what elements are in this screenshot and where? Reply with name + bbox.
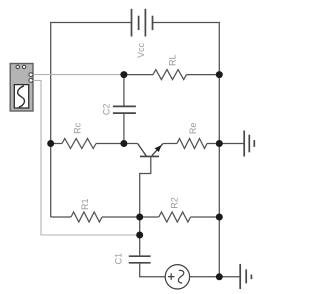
wire Rc to node [96,143,124,145]
node Re/ground [216,140,223,147]
capacitor C1 [129,256,151,263]
node RL/right bus [216,71,223,78]
wire top-left (battery to left bus) [51,22,132,24]
capacitor C2 [113,106,136,113]
node Rc/left bus [47,140,54,147]
battery Vcc [132,9,153,37]
node base/R1/R2 [136,214,143,221]
wire left bus [50,22,52,217]
wire left bus corner to R1 [51,216,71,218]
wire AC source to right bus [190,276,220,278]
svg-text:Re: Re [188,123,198,135]
wire node to RL [124,74,153,76]
node R2/right bus [216,214,223,221]
svg-text:C1: C1 [113,253,123,265]
resistor Re [177,139,207,149]
node bottom/ground [216,273,223,280]
resistor R1 [71,212,102,222]
wire transistor emitter to Re [163,143,177,145]
wire R1 to node [102,216,140,218]
ground (right middle) [244,131,254,157]
wire C1 to AC source [140,264,166,277]
resistor RL [153,70,187,80]
ac source V1 [165,265,189,289]
svg-text:R2: R2 [170,197,180,209]
resistor R2 [159,212,191,222]
svg-text:RL: RL [167,54,177,66]
wire node to R2 [140,216,159,218]
wire C2 bottom stem [123,114,125,144]
wire probe A (gray) [33,74,124,76]
wire transistor base lead [140,156,151,217]
oscilloscope probe icon [10,64,33,112]
wire right bus [218,22,220,277]
svg-text:Vcc: Vcc [136,42,146,58]
wire Re to right bus [207,143,219,145]
wire C2 top stem [123,75,125,106]
wire to ground (bottom) [219,276,240,278]
resistor Rc [62,139,96,149]
wire R2 to right bus [191,216,220,218]
ground (bottom right) [240,264,251,289]
wire left bus to Rc [51,143,62,145]
node collector [120,140,127,147]
wire base node down to C1 [139,217,141,255]
node C2/RL [120,71,127,78]
node probe B [136,232,143,239]
wire probe B (gray) [33,80,140,235]
transistor Q1 [138,143,164,156]
wire node to transistor collector [124,143,138,145]
svg-text:R1: R1 [80,198,90,210]
wire top-right (battery to right bus) [153,22,220,24]
svg-text:C2: C2 [101,104,111,116]
wire RL to right bus [187,74,220,76]
svg-text:Rc: Rc [73,122,83,133]
wire to ground (emitter bias) [219,143,244,145]
